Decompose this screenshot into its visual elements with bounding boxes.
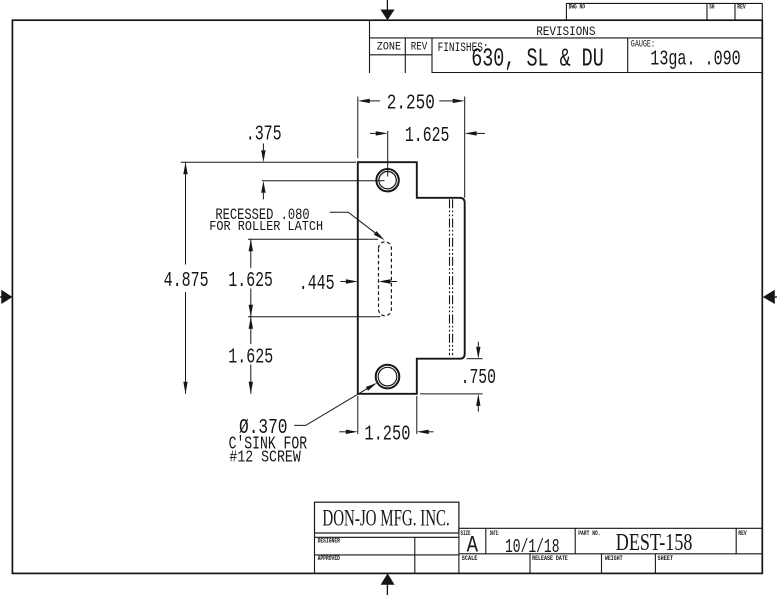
svg-text:DEST-158: DEST-158 <box>616 529 693 556</box>
svg-text:1.250: 1.250 <box>364 424 410 447</box>
svg-text:DON-JO MFG. INC.: DON-JO MFG. INC. <box>322 505 449 530</box>
svg-text:SCALE: SCALE <box>462 555 478 562</box>
svg-text:.445: .445 <box>299 273 335 296</box>
svg-text:1.625: 1.625 <box>228 347 273 370</box>
svg-text:REV: REV <box>737 4 746 11</box>
svg-text:DWG NO: DWG NO <box>569 4 586 11</box>
svg-text:.750: .750 <box>461 367 496 390</box>
svg-text:630, SL & DU: 630, SL & DU <box>471 44 604 73</box>
svg-text:SH: SH <box>709 4 714 11</box>
title block left lines <box>315 528 459 573</box>
svg-text:REV: REV <box>411 41 428 53</box>
svg-text:WEIGHT: WEIGHT <box>605 555 623 562</box>
svg-text:DESIGNER: DESIGNER <box>318 537 341 544</box>
dim 1.625 upper-left <box>228 239 380 316</box>
bottom screw hole <box>376 365 400 389</box>
recess slot hidden outline <box>379 242 392 316</box>
svg-text:REVISIONS: REVISIONS <box>536 24 595 39</box>
svg-text:RELEASE DATE: RELEASE DATE <box>532 555 568 562</box>
svg-text:PART NO.: PART NO. <box>578 530 601 537</box>
dim .750 <box>420 342 496 412</box>
dwg-no strip lines <box>566 3 762 20</box>
svg-text:1.625: 1.625 <box>405 125 450 148</box>
note csink screw <box>229 383 378 468</box>
company box <box>315 502 459 533</box>
right centering mark <box>763 290 777 304</box>
svg-text:.375: .375 <box>246 124 282 147</box>
dim .375 <box>181 124 385 200</box>
svg-text:SHEET: SHEET <box>658 555 674 562</box>
svg-text:DATE:: DATE: <box>490 530 500 537</box>
svg-text:REV: REV <box>738 530 747 537</box>
title block right lines <box>459 528 762 573</box>
left centering mark <box>0 290 12 304</box>
dim 4.875 <box>164 162 209 394</box>
dim 2.250 <box>358 93 465 198</box>
bend lines <box>450 199 453 355</box>
svg-text:2.250: 2.250 <box>387 93 435 116</box>
revisions block lines <box>370 20 763 73</box>
svg-text:13ga. .090: 13ga. .090 <box>650 48 740 71</box>
svg-text:APPROVED: APPROVED <box>318 555 341 562</box>
bottom centering mark <box>381 573 395 595</box>
svg-text:ZONE: ZONE <box>377 41 402 53</box>
dwg-no strip labels <box>569 4 746 11</box>
note recessed for roller latch <box>209 206 384 240</box>
top centering mark <box>380 0 394 20</box>
dim 1.250 <box>339 396 433 447</box>
dim 1.625 top <box>370 125 485 176</box>
plate outline <box>358 162 465 394</box>
svg-text:4.875: 4.875 <box>164 270 209 293</box>
top screw hole <box>376 169 398 191</box>
svg-text:#12 SCREW: #12 SCREW <box>229 449 301 468</box>
svg-text:1.625: 1.625 <box>228 270 273 293</box>
svg-text:FOR ROLLER LATCH: FOR ROLLER LATCH <box>209 219 323 235</box>
dim .445 <box>299 273 397 296</box>
dim 1.625 lower-left <box>228 317 273 394</box>
